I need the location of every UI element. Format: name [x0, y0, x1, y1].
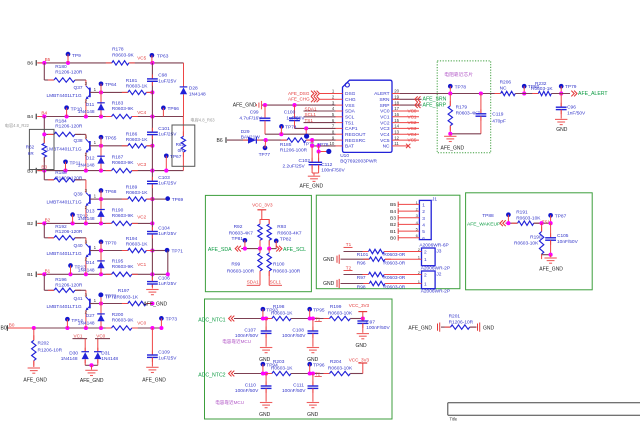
svg-text:DSG: DSG — [345, 91, 356, 97]
svg-text:NC: NC — [500, 85, 507, 91]
svg-text:AFE_WAKEUP: AFE_WAKEUP — [467, 222, 500, 228]
svg-text:VC3: VC3 — [380, 126, 390, 132]
svg-text:R183: R183 — [112, 101, 124, 107]
svg-text:R199: R199 — [330, 304, 342, 310]
svg-text:13: 13 — [394, 129, 399, 134]
svg-text:Q41: Q41 — [74, 296, 83, 302]
svg-text:100nF/50V: 100nF/50V — [282, 388, 306, 394]
svg-text:B4: B4 — [390, 209, 396, 215]
svg-text:1N4148: 1N4148 — [189, 91, 206, 97]
svg-text:AFE_GND: AFE_GND — [23, 377, 47, 383]
svg-text:ADC_NTC1: ADC_NTC1 — [198, 317, 225, 323]
svg-text:TP95: TP95 — [313, 307, 325, 313]
svg-text:GND: GND — [307, 412, 319, 418]
svg-text:C102: C102 — [299, 158, 311, 164]
svg-text:SCL1: SCL1 — [305, 112, 317, 117]
svg-text:B0: B0 — [390, 236, 396, 242]
svg-text:R181: R181 — [126, 78, 138, 84]
svg-text:电阻靠近芯片: 电阻靠近芯片 — [444, 71, 473, 78]
svg-text:VC5: VC5 — [137, 55, 146, 60]
svg-text:R0603-10K: R0603-10K — [328, 310, 353, 316]
svg-text:AFE_GND: AFE_GND — [233, 103, 257, 109]
svg-text:R190: R190 — [112, 208, 124, 214]
svg-text:T1: T1 — [346, 242, 352, 247]
svg-text:AFE_GND: AFE_GND — [408, 326, 432, 332]
svg-text:2: 2 — [424, 250, 427, 256]
svg-text:R189: R189 — [126, 185, 138, 191]
svg-text:GND: GND — [259, 357, 271, 363]
svg-text:B0: B0 — [9, 323, 15, 328]
svg-text:VC3: VC3 — [137, 162, 146, 167]
svg-text:R1206-10R: R1206-10R — [449, 319, 474, 325]
svg-text:C110: C110 — [245, 383, 256, 389]
svg-text:R0603-0R: R0603-0R — [383, 285, 405, 291]
svg-text:1uF/25V: 1uF/25V — [158, 231, 177, 237]
svg-text:TP68: TP68 — [105, 189, 117, 195]
svg-text:GND: GND — [323, 257, 335, 263]
svg-text:A2006WR-2P: A2006WR-2P — [421, 265, 450, 271]
svg-text:SRP: SRP — [380, 103, 390, 109]
svg-text:AFE_SCL: AFE_SCL — [283, 247, 306, 253]
svg-text:TP81: TP81 — [232, 236, 244, 242]
svg-text:C101: C101 — [158, 126, 170, 132]
svg-text:C104: C104 — [158, 225, 170, 231]
svg-text:GND: GND — [556, 127, 568, 133]
svg-text:R192: R192 — [55, 224, 67, 230]
svg-text:VC1: VC1 — [74, 334, 83, 339]
svg-text:R204: R204 — [330, 359, 342, 365]
svg-text:J3: J3 — [436, 248, 441, 254]
svg-text:AFE_GND: AFE_GND — [300, 184, 324, 190]
svg-text:GND: GND — [356, 343, 368, 349]
svg-text:VC2: VC2 — [137, 215, 146, 220]
svg-text:B0: B0 — [1, 326, 7, 332]
svg-text:R0603-10K: R0603-10K — [514, 241, 539, 247]
svg-text:TP96: TP96 — [313, 362, 325, 368]
svg-text:VC2: VC2 — [380, 120, 390, 126]
svg-text:AFE_GND: AFE_GND — [441, 146, 465, 152]
svg-text:R1206-100R: R1206-100R — [280, 148, 308, 154]
svg-text:D12: D12 — [86, 155, 95, 161]
svg-text:R97: R97 — [357, 275, 366, 281]
svg-text:Q39: Q39 — [74, 192, 83, 198]
svg-text:VC1: VC1 — [380, 115, 390, 121]
svg-text:1N4148: 1N4148 — [78, 163, 95, 169]
svg-text:R0603-1K: R0603-1K — [126, 190, 148, 196]
svg-text:R0603-100R: R0603-100R — [227, 268, 255, 274]
svg-text:Q37: Q37 — [74, 85, 83, 91]
svg-text:AFE_GND: AFE_GND — [80, 378, 104, 384]
svg-text:TP66: TP66 — [168, 106, 180, 112]
svg-text:SCL1: SCL1 — [270, 280, 282, 285]
svg-text:1: 1 — [424, 257, 427, 263]
svg-text:TP82: TP82 — [280, 237, 292, 243]
svg-text:100nF/50V: 100nF/50V — [321, 168, 345, 174]
svg-text:R93: R93 — [277, 224, 286, 230]
svg-text:SDA: SDA — [345, 109, 356, 115]
svg-text:470pF: 470pF — [492, 119, 506, 125]
svg-text:R198: R198 — [273, 304, 285, 310]
svg-text:R0603-4K7: R0603-4K7 — [277, 231, 302, 237]
svg-text:ALERT: ALERT — [374, 91, 389, 97]
svg-text:R1206-120R: R1206-120R — [55, 175, 83, 181]
svg-text:2.2uF/25V: 2.2uF/25V — [283, 163, 306, 169]
svg-text:VCC_3V3: VCC_3V3 — [349, 303, 370, 308]
svg-text:R0603-0R: R0603-0R — [383, 275, 405, 281]
svg-text:AFE_GND: AFE_GND — [539, 266, 563, 272]
svg-text:R201: R201 — [449, 313, 461, 319]
svg-text:R202: R202 — [38, 341, 50, 347]
svg-text:J2: J2 — [436, 271, 441, 277]
svg-text:R186: R186 — [126, 131, 138, 137]
svg-text:16: 16 — [394, 112, 399, 117]
svg-text:1: 1 — [424, 282, 427, 288]
svg-text:A2006WR-2P: A2006WR-2P — [421, 289, 450, 295]
svg-text:B2: B2 — [27, 221, 33, 227]
svg-text:1uF/25V: 1uF/25V — [158, 355, 177, 361]
svg-text:VC4: VC4 — [380, 132, 390, 138]
svg-text:VC4: VC4 — [137, 110, 146, 115]
svg-text:TP72R0603-1K: TP72R0603-1K — [105, 294, 139, 300]
svg-text:1uF/25V: 1uF/25V — [158, 78, 177, 84]
svg-text:AFE_SDA: AFE_SDA — [208, 247, 232, 253]
svg-text:D29: D29 — [241, 129, 250, 135]
svg-text:TP9: TP9 — [72, 53, 81, 59]
svg-text:C105: C105 — [557, 233, 569, 239]
svg-text:C109: C109 — [158, 350, 170, 356]
svg-text:R92: R92 — [234, 224, 243, 230]
svg-text:REGSRC: REGSRC — [345, 138, 366, 144]
svg-text:C98: C98 — [158, 73, 167, 79]
svg-text:R200: R200 — [112, 312, 124, 318]
svg-text:VC2: VC2 — [408, 120, 417, 125]
svg-text:1uF/25V: 1uF/25V — [158, 181, 177, 187]
svg-text:R178: R178 — [112, 47, 124, 53]
svg-text:C112: C112 — [321, 162, 332, 168]
svg-text:R194: R194 — [126, 236, 138, 242]
svg-text:R187: R187 — [112, 155, 124, 161]
svg-text:11: 11 — [394, 141, 399, 146]
svg-text:B3: B3 — [390, 216, 396, 222]
svg-text:2: 2 — [422, 209, 425, 215]
svg-text:1uF/25V: 1uF/25V — [158, 281, 177, 287]
svg-text:R101: R101 — [357, 252, 369, 258]
svg-text:LMBT4401LT1G: LMBT4401LT1G — [47, 251, 82, 257]
svg-text:电容4.8_R63: 电容4.8_R63 — [190, 116, 215, 123]
svg-text:1N4148: 1N4148 — [78, 109, 95, 115]
svg-text:15: 15 — [394, 118, 399, 123]
svg-text:R0603-10K: R0603-10K — [328, 365, 353, 371]
svg-text:TS1: TS1 — [305, 118, 314, 123]
svg-text:BQ7692003PWR: BQ7692003PWR — [340, 159, 377, 165]
svg-text:R99: R99 — [231, 262, 240, 268]
svg-text:R1206-120R: R1206-120R — [55, 283, 83, 289]
svg-text:电容4.8_R22: 电容4.8_R22 — [5, 122, 30, 129]
svg-text:14: 14 — [394, 124, 399, 129]
svg-text:VC4: VC4 — [408, 132, 417, 137]
svg-text:SCL: SCL — [345, 115, 355, 121]
svg-text:0R: 0R — [178, 148, 185, 153]
svg-text:4: 4 — [422, 222, 425, 228]
svg-text:6R: 6R — [28, 151, 35, 156]
svg-text:D11: D11 — [86, 102, 95, 108]
svg-text:R195: R195 — [112, 258, 124, 264]
svg-text:AFE_ALERT: AFE_ALERT — [578, 91, 608, 97]
svg-text:R63: R63 — [176, 142, 185, 147]
svg-text:4.7uF/16V: 4.7uF/16V — [239, 115, 262, 121]
svg-text:R0603-9K: R0603-9K — [112, 213, 134, 219]
svg-text:12: 12 — [394, 135, 399, 140]
svg-text:TP77: TP77 — [259, 152, 271, 158]
svg-text:R0603-0R: R0603-0R — [383, 260, 405, 266]
svg-text:1N4148: 1N4148 — [78, 267, 95, 273]
svg-text:D13: D13 — [86, 209, 95, 215]
svg-text:VSS: VSS — [345, 103, 355, 109]
svg-text:TP71: TP71 — [172, 248, 184, 254]
svg-text:AFE_CHG: AFE_CHG — [288, 97, 310, 102]
svg-text:1N4148: 1N4148 — [61, 356, 78, 362]
svg-text:BAV21W: BAV21W — [241, 135, 261, 141]
svg-text:R206: R206 — [500, 80, 512, 86]
svg-text:1nF/50V: 1nF/50V — [567, 110, 586, 116]
svg-text:R190: R190 — [530, 234, 542, 240]
svg-text:R0603-10K: R0603-10K — [516, 215, 541, 221]
svg-text:VC5: VC5 — [408, 138, 417, 143]
svg-text:CHG: CHG — [345, 97, 356, 103]
svg-text:R0603-1K: R0603-1K — [126, 242, 148, 248]
svg-text:R0603-9K: R0603-9K — [112, 318, 134, 324]
svg-text:B6: B6 — [27, 61, 33, 67]
svg-text:R185: R185 — [280, 142, 292, 148]
svg-text:VC5: VC5 — [380, 138, 390, 144]
svg-text:100nF/50V: 100nF/50V — [366, 325, 390, 331]
svg-text:R197: R197 — [118, 288, 130, 294]
svg-text:B4: B4 — [27, 114, 33, 120]
svg-text:C100: C100 — [284, 109, 296, 115]
svg-text:AFE_DSG: AFE_DSG — [288, 91, 310, 96]
svg-text:C111: C111 — [293, 383, 304, 389]
svg-text:TP79: TP79 — [565, 84, 577, 90]
svg-text:R196: R196 — [55, 277, 67, 283]
svg-text:1N4148: 1N4148 — [101, 356, 118, 362]
svg-text:R232: R232 — [535, 81, 547, 87]
svg-text:U10: U10 — [340, 153, 349, 159]
svg-text:VCC_3V3: VCC_3V3 — [349, 357, 370, 362]
svg-text:1N4148: 1N4148 — [78, 216, 95, 222]
svg-text:TP78: TP78 — [455, 84, 467, 90]
svg-text:TP73: TP73 — [166, 317, 178, 323]
svg-text:D31: D31 — [101, 350, 110, 356]
svg-text:17: 17 — [394, 106, 399, 111]
svg-text:R191: R191 — [516, 210, 528, 216]
svg-text:100nF/50V: 100nF/50V — [282, 333, 306, 339]
svg-text:C106: C106 — [158, 275, 170, 281]
svg-text:R0603-1K: R0603-1K — [271, 365, 293, 371]
svg-text:R98: R98 — [357, 285, 366, 291]
svg-text:D14: D14 — [86, 260, 95, 266]
svg-text:R0603-1K: R0603-1K — [126, 137, 148, 143]
svg-text:R188: R188 — [55, 170, 67, 176]
svg-text:VC0: VC0 — [408, 109, 417, 114]
svg-text:VC0: VC0 — [380, 109, 390, 115]
svg-text:TP88: TP88 — [482, 213, 494, 219]
svg-text:VC3: VC3 — [408, 126, 417, 131]
svg-text:6: 6 — [422, 236, 425, 242]
svg-text:GND: GND — [483, 326, 495, 332]
svg-text:R0603-1K: R0603-1K — [531, 86, 553, 92]
svg-text:R0603-1K: R0603-1K — [271, 310, 293, 316]
svg-text:NC: NC — [383, 144, 390, 150]
svg-text:R0603-9K: R0603-9K — [112, 160, 134, 166]
svg-text:C103: C103 — [158, 175, 170, 181]
svg-text:C119: C119 — [492, 112, 503, 118]
svg-text:B1: B1 — [27, 272, 33, 278]
svg-text:电容靠近MCU: 电容靠近MCU — [215, 399, 244, 406]
svg-text:5: 5 — [422, 229, 425, 235]
svg-text:100nF/50V: 100nF/50V — [235, 388, 259, 394]
svg-text:AFE_SRP: AFE_SRP — [423, 102, 447, 108]
svg-text:LMBT4401LT1G: LMBT4401LT1G — [47, 200, 82, 206]
svg-text:TP74: TP74 — [285, 124, 297, 130]
svg-text:D28: D28 — [189, 86, 198, 92]
svg-text:SDA1: SDA1 — [247, 280, 259, 285]
svg-text:VC1: VC1 — [408, 114, 417, 119]
svg-text:BAT: BAT — [345, 144, 354, 150]
svg-text:VC0: VC0 — [96, 334, 105, 339]
svg-text:TP69: TP69 — [172, 197, 184, 203]
svg-text:R1206-120R: R1206-120R — [55, 229, 83, 235]
svg-text:R1206-120R: R1206-120R — [55, 69, 83, 75]
svg-text:SRN: SRN — [379, 97, 390, 103]
svg-text:1: 1 — [422, 202, 425, 208]
svg-text:C99: C99 — [250, 109, 259, 115]
svg-text:C97: C97 — [366, 319, 375, 325]
svg-text:TP70: TP70 — [105, 240, 117, 246]
svg-text:3: 3 — [422, 216, 425, 222]
svg-text:SDA1: SDA1 — [305, 106, 317, 111]
svg-text:R0603-9K: R0603-9K — [112, 53, 134, 59]
svg-text:GND: GND — [323, 281, 335, 287]
svg-text:B5: B5 — [390, 202, 396, 208]
svg-text:C96: C96 — [567, 104, 576, 110]
svg-text:R0603-1K: R0603-1K — [126, 83, 148, 89]
svg-text:LMBT4401LT1G: LMBT4401LT1G — [47, 146, 82, 152]
svg-text:R1206-10R: R1206-10R — [38, 347, 63, 353]
svg-text:AFE_GND: AFE_GND — [142, 377, 166, 383]
svg-text:1N4148: 1N4148 — [78, 320, 95, 326]
svg-text:B2: B2 — [390, 222, 396, 228]
svg-text:REGOUT: REGOUT — [345, 132, 366, 138]
svg-text:R180: R180 — [55, 64, 67, 70]
svg-text:TP64: TP64 — [105, 82, 117, 88]
svg-text:TP65: TP65 — [105, 136, 117, 142]
svg-text:R0603-9K: R0603-9K — [112, 106, 134, 112]
svg-text:TP67: TP67 — [170, 154, 182, 160]
svg-text:R62: R62 — [26, 145, 35, 150]
svg-text:电容靠近MCU: 电容靠近MCU — [222, 338, 251, 345]
svg-text:R0603-100R: R0603-100R — [273, 268, 301, 274]
svg-text:Title: Title — [450, 417, 458, 421]
svg-text:R0603-0R: R0603-0R — [383, 252, 405, 258]
svg-text:B1: B1 — [390, 229, 396, 235]
svg-text:R203: R203 — [273, 359, 285, 365]
svg-text:TP63: TP63 — [157, 53, 169, 59]
svg-text:R179: R179 — [456, 105, 468, 111]
svg-text:R1206-120R: R1206-120R — [55, 124, 83, 130]
svg-text:J1: J1 — [432, 197, 437, 203]
svg-text:R0603-4K7: R0603-4K7 — [229, 231, 254, 237]
svg-text:D27: D27 — [86, 313, 95, 319]
svg-text:2: 2 — [424, 273, 427, 279]
svg-text:Q38: Q38 — [74, 138, 83, 144]
svg-text:TS1: TS1 — [345, 120, 354, 126]
svg-text:T2: T2 — [346, 265, 352, 270]
svg-text:T1: T1 — [315, 316, 321, 321]
svg-text:GND: GND — [259, 412, 271, 418]
svg-text:LMBT4401LT1G: LMBT4401LT1G — [47, 93, 82, 99]
svg-text:D30: D30 — [69, 350, 78, 356]
svg-text:ADC_NTC2: ADC_NTC2 — [198, 372, 225, 378]
svg-text:C108: C108 — [292, 328, 304, 334]
svg-text:LMBT4401LT1G: LMBT4401LT1G — [47, 304, 82, 310]
svg-text:CAP1: CAP1 — [345, 126, 358, 132]
svg-text:R96: R96 — [357, 260, 366, 266]
svg-text:10nF/50V: 10nF/50V — [557, 239, 579, 245]
svg-text:AFE_GND: AFE_GND — [144, 301, 168, 307]
svg-text:VCC_3V3: VCC_3V3 — [252, 202, 273, 207]
svg-text:TP87: TP87 — [555, 213, 567, 219]
svg-text:R0603-9K: R0603-9K — [112, 264, 134, 270]
svg-text:Q40: Q40 — [74, 243, 83, 249]
svg-text:VC1: VC1 — [137, 262, 146, 267]
svg-text:1uF/25V: 1uF/25V — [158, 132, 177, 138]
svg-text:C107: C107 — [244, 328, 256, 334]
svg-text:VC0: VC0 — [137, 321, 146, 326]
svg-text:1uF/50V: 1uF/50V — [286, 115, 305, 121]
svg-text:T2: T2 — [315, 371, 321, 376]
svg-text:R100: R100 — [273, 262, 285, 268]
svg-text:B6: B6 — [217, 138, 223, 144]
